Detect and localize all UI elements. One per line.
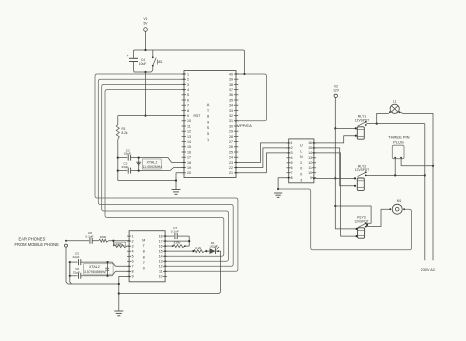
svg-text:FROM MOBILE PHONE: FROM MOBILE PHONE (15, 242, 60, 247)
wire ULN pin8 to ground (278, 178, 289, 189)
svg-text:33pF: 33pF (121, 165, 128, 169)
svg-text:N: N (300, 155, 303, 159)
wire P1.0 pin1 loop to DTMF Q1 (95, 74, 238, 271)
node reset junction (144, 71, 146, 73)
svg-text:12: 12 (187, 130, 191, 134)
svg-text:24: 24 (229, 156, 233, 160)
svg-text:17: 17 (187, 156, 191, 160)
svg-text:4: 4 (291, 156, 293, 160)
wire pin20 to ground (176, 173, 184, 189)
svg-text:11: 11 (308, 166, 312, 170)
svg-text:0: 0 (300, 173, 302, 177)
wire P1.1 pin2 loop to DTMF Q2 (98, 79, 233, 266)
wire crystal right vertical (107, 262, 109, 276)
svg-text:5: 5 (291, 161, 293, 165)
svg-text:17: 17 (159, 239, 163, 243)
svg-text:0.1uF: 0.1uF (86, 234, 94, 238)
resistor R1 8.2k (117, 116, 119, 125)
wire steering pin17 (165, 240, 189, 242)
U3 vertical label MT8870 (142, 239, 145, 271)
wire to 8870 pin2 (108, 240, 129, 242)
ground stub between C2 C3 (138, 158, 140, 171)
svg-text:40: 40 (229, 72, 233, 76)
input terminal sleeve (65, 244, 68, 247)
wire lamp to mains N (400, 112, 434, 260)
capacitor C7 0.1uF steering (165, 235, 174, 237)
svg-text:13: 13 (159, 260, 163, 264)
svg-text:10uF: 10uF (139, 62, 147, 66)
wire C5 to 8870 pin7 (108, 262, 130, 266)
ground bottom left (114, 310, 123, 312)
svg-text:M1: M1 (397, 199, 402, 203)
svg-text:7: 7 (143, 261, 145, 265)
svg-text:29: 29 (229, 130, 233, 134)
svg-text:18: 18 (159, 234, 163, 238)
svg-text:12V: 12V (333, 88, 340, 92)
svg-text:34: 34 (229, 104, 233, 108)
capacitor C3 33pF (118, 170, 127, 172)
svg-text:2: 2 (291, 146, 293, 150)
svg-text:35: 35 (229, 98, 233, 102)
wire branch up to lamp (377, 113, 389, 123)
svg-text:U: U (300, 144, 303, 148)
U1 vertical label AT89S51 (207, 103, 210, 142)
svg-text:L: L (300, 149, 302, 153)
U2 pin ticks and numbers (287, 143, 317, 178)
svg-text:XTAL1: XTAL1 (147, 160, 158, 164)
svg-text:5: 5 (132, 255, 134, 259)
svg-text:12VSPDT: 12VSPDT (354, 219, 368, 223)
svg-text:22: 22 (229, 166, 233, 170)
svg-text:15: 15 (159, 250, 163, 254)
wire XTAL1 top to pin18 (139, 158, 184, 163)
node 12V RLY1 (334, 127, 336, 129)
svg-text:12: 12 (159, 265, 163, 269)
svg-text:30: 30 (229, 124, 233, 128)
svg-text:1: 1 (291, 141, 293, 145)
ground at ULN (274, 192, 282, 194)
wire P1.2 pin3 loop to DTMF Q3 (102, 84, 229, 261)
svg-text:11.0592MHz: 11.0592MHz (143, 165, 163, 169)
wire motor left to RLY3 contact (367, 209, 391, 226)
svg-text:14: 14 (159, 255, 163, 259)
wire ground return rail to motor (278, 189, 411, 250)
svg-text:3.579545MHz: 3.579545MHz (84, 270, 106, 274)
svg-text:31: 31 (229, 119, 233, 123)
svg-text:13: 13 (187, 135, 191, 139)
wire LED return rail (119, 255, 221, 294)
svg-text:11: 11 (159, 270, 163, 274)
svg-text:S: S (207, 126, 210, 130)
wire VCC to pin40 and EA pin31 (243, 73, 245, 75)
U1 pin ticks and numbers (182, 74, 239, 173)
node VCC junction (144, 49, 146, 51)
svg-text:20: 20 (187, 171, 191, 175)
svg-text:330k: 330k (174, 241, 181, 245)
svg-text:XTAL2: XTAL2 (89, 265, 100, 269)
svg-text:0: 0 (300, 167, 302, 171)
VCC top rail (134, 50, 245, 74)
capacitor C6 22pF (70, 275, 78, 277)
capacitor C5 22pF (70, 261, 78, 263)
wire earphone ground down (66, 247, 119, 284)
wire 12V down to RLY3 coil top (335, 206, 356, 229)
wire ULN out16 to RLY1 coil bottom (314, 136, 356, 143)
svg-text:3: 3 (187, 83, 189, 87)
svg-text:10: 10 (308, 171, 312, 175)
svg-text:2.2k: 2.2k (195, 246, 201, 250)
svg-text:8.2k: 8.2k (122, 131, 128, 135)
wire GND rail under MCU (118, 180, 176, 182)
svg-text:EAR PHONES: EAR PHONES (19, 237, 46, 242)
svg-text:36: 36 (229, 93, 233, 97)
crystal XTAL2 3.579545MHz (83, 264, 113, 275)
svg-text:37: 37 (229, 88, 233, 92)
svg-text:14: 14 (187, 140, 191, 144)
U3 pin ticks and numbers (127, 236, 167, 276)
wire P2.1 pin22 to ULN in2 (236, 148, 289, 168)
svg-text:19: 19 (187, 166, 191, 170)
svg-text:6: 6 (291, 166, 293, 170)
svg-text:7: 7 (187, 104, 189, 108)
svg-text:15: 15 (308, 146, 312, 150)
wire XTAL1 bottom to pin19 (139, 168, 184, 171)
resistor 100k feedback (112, 241, 114, 246)
svg-text:RST: RST (194, 114, 201, 118)
svg-text:4: 4 (187, 88, 189, 92)
wire reset bus (134, 70, 153, 73)
svg-text:L1: L1 (393, 99, 397, 103)
wire ULN pin9 COM to RLY2 coil top (314, 177, 355, 179)
svg-text:13: 13 (308, 156, 312, 160)
svg-text:3: 3 (291, 151, 293, 155)
svg-text:14: 14 (308, 151, 312, 155)
U2 vertical label ULN2003 (300, 144, 303, 183)
capacitor C4 (129, 57, 138, 59)
svg-text:6: 6 (187, 98, 189, 102)
svg-text:+: + (127, 54, 129, 58)
svg-text:R1: R1 (122, 127, 126, 131)
svg-text:12VSPDT: 12VSPDT (355, 168, 369, 172)
wire 12V rail RLY1 to pin9 row (334, 128, 336, 178)
wire 8870 pin9 VSS down (119, 276, 129, 310)
svg-text:26: 26 (229, 145, 233, 149)
input terminal tip (65, 240, 67, 242)
svg-text:38: 38 (229, 83, 233, 87)
wire P2.2 pin23 to ULN in1 (236, 143, 289, 163)
svg-text:100k: 100k (100, 235, 107, 239)
svg-text:7: 7 (132, 265, 134, 269)
svg-text:9: 9 (207, 120, 209, 124)
svg-text:16: 16 (308, 141, 312, 145)
svg-text:18: 18 (187, 161, 191, 165)
crystal XTAL1 11.0592MHz (142, 159, 161, 169)
wire 12V to RLY1 coil (335, 127, 356, 129)
svg-text:11: 11 (187, 124, 191, 128)
svg-text:8: 8 (207, 115, 209, 119)
svg-text:39: 39 (229, 78, 233, 82)
svg-text:32: 32 (229, 114, 233, 118)
wire 12V to RLY3 contact loop (335, 206, 371, 223)
svg-text:4: 4 (132, 250, 134, 254)
svg-text:VPP/EA: VPP/EA (237, 123, 252, 128)
svg-text:16: 16 (159, 245, 163, 249)
svg-text:8: 8 (132, 270, 134, 274)
svg-text:9: 9 (187, 114, 189, 118)
svg-text:8: 8 (187, 109, 189, 113)
svg-text:7: 7 (291, 171, 293, 175)
svg-text:1: 1 (132, 234, 134, 238)
wire plug left lead (394, 158, 396, 176)
svg-text:8: 8 (143, 255, 145, 259)
svg-text:M: M (142, 239, 145, 243)
svg-text:12VSPDT: 12VSPDT (355, 118, 369, 122)
wire plug right lead to mains N (401, 158, 433, 166)
wire reset vertical to RST (145, 72, 147, 116)
wire RLY2 contact row to mains (367, 174, 425, 176)
wire ULN out14 to RLY3 coil bottom (314, 153, 357, 236)
svg-text:8: 8 (143, 250, 145, 254)
dtmf IC U3 MT8870 box (129, 231, 165, 282)
svg-text:15: 15 (187, 145, 191, 149)
svg-text:25: 25 (229, 150, 233, 154)
svg-text:5: 5 (207, 132, 209, 136)
wire ULN out15 to RLY2 coil bottom (314, 148, 355, 186)
wire V1 to VCC rail (145, 31, 147, 50)
ground under MCU (172, 189, 181, 191)
svg-text:1: 1 (187, 72, 189, 76)
wire P2.0 pin21 to ULN in3 (236, 153, 289, 173)
wire 12V rail down (334, 98, 336, 129)
svg-text:22pF: 22pF (73, 271, 80, 275)
svg-text:27: 27 (229, 140, 233, 144)
wire StD pin15 row (165, 250, 193, 252)
svg-text:2: 2 (132, 239, 134, 243)
svg-text:10: 10 (187, 119, 191, 123)
svg-text:A: A (207, 103, 210, 107)
svg-text:230V AC: 230V AC (421, 268, 436, 272)
svg-text:PLUG: PLUG (393, 140, 404, 145)
switch S1 (152, 50, 154, 57)
driver IC U2 ULN2003 box (289, 139, 314, 183)
capacitor C8 0.1uF (66, 240, 89, 242)
svg-text:3: 3 (132, 245, 134, 249)
op IC U1 AT89S51 microcontroller box (184, 71, 236, 178)
svg-text:5: 5 (187, 93, 189, 97)
svg-text:6: 6 (132, 260, 134, 264)
svg-text:V1: V1 (143, 17, 147, 21)
svg-text:16: 16 (187, 150, 191, 154)
svg-text:21: 21 (229, 171, 233, 175)
wire RLY1 contact to mains L (367, 123, 425, 125)
svg-text:S1: S1 (159, 60, 163, 64)
capacitor C2 33pF (118, 157, 127, 159)
svg-text:9: 9 (132, 275, 134, 279)
wire P1.3 pin4 loop to DTMF Q4 (105, 90, 224, 257)
svg-text:1: 1 (207, 138, 209, 142)
svg-text:23: 23 (229, 161, 233, 165)
svg-text:0: 0 (143, 267, 145, 271)
svg-text:12: 12 (308, 161, 312, 165)
svg-text:2: 2 (300, 161, 302, 165)
svg-text:33: 33 (229, 109, 233, 113)
resistor 100k input (92, 240, 99, 242)
wire steering vertical (188, 236, 190, 246)
wire R1 to ground rail (117, 140, 119, 181)
wire caps left vertical (70, 262, 72, 284)
mains live vertical (424, 124, 426, 261)
wire 12V rail down to RLY3 (334, 178, 336, 206)
svg-text:3: 3 (300, 178, 302, 182)
wire RST row (118, 115, 184, 117)
svg-text:33pF: 33pF (124, 152, 131, 156)
svg-text:0.1uF: 0.1uF (171, 230, 179, 234)
svg-text:10: 10 (159, 275, 163, 279)
svg-text:22pF: 22pF (73, 255, 80, 259)
svg-text:2: 2 (187, 78, 189, 82)
wire C6 to 8870 pin8 (108, 271, 130, 276)
svg-text:9: 9 (310, 176, 312, 180)
svg-text:8: 8 (291, 176, 293, 180)
svg-text:28: 28 (229, 135, 233, 139)
